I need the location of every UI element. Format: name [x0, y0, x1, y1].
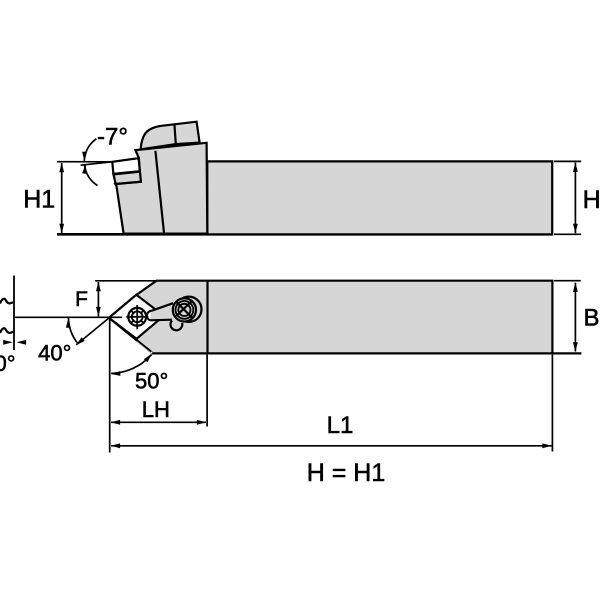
clamp arm (plan view) [151, 302, 186, 321]
clamp (side view) [141, 122, 200, 150]
clamp hook (plan view) [171, 321, 183, 331]
head internal edge (side view) [155, 151, 164, 233]
clamp divider line (side view) [174, 124, 175, 144]
dimension -7deg: lower arc [84, 164, 97, 185]
dimension H line [574, 163, 576, 234]
insert (plan view, square) [109, 295, 164, 339]
workpiece face line [13, 276, 15, 351]
svg-text:B: B [583, 305, 599, 332]
dimension L1 line [111, 445, 552, 447]
svg-text:-7°: -7° [97, 124, 128, 151]
dimension 0deg arrows [3, 340, 13, 345]
insert screw (plan view) [126, 305, 148, 329]
shim edge (plan view) [136, 339, 151, 351]
head body (side view) [115, 143, 207, 234]
svg-text:H: H [583, 186, 600, 214]
dimension 40deg arc [69, 317, 78, 343]
svg-text:0°: 0° [0, 351, 16, 376]
svg-text:40°: 40° [38, 341, 71, 366]
dimension F extension line [95, 280, 157, 282]
dimension LH line [111, 421, 206, 423]
insert (side view) [112, 158, 140, 174]
40deg cutting edge extension line [76, 317, 110, 345]
dimension B line [574, 283, 576, 352]
dimension -7deg: upper arc [84, 139, 96, 162]
shim (side view) [114, 172, 141, 184]
dimension -7deg: face line [81, 162, 113, 165]
dimension L1 extension line [551, 355, 553, 452]
dimension F line [97, 282, 99, 316]
reference line through tip (plan view) [14, 316, 122, 318]
svg-text:H1: H1 [23, 186, 55, 214]
clamp screw (plan view) [173, 297, 202, 322]
holder body (plan view) [109, 281, 553, 354]
dimension H1 line [61, 163, 63, 233]
workpiece symbol (plan view left) [0, 299, 13, 304]
dimension 50deg arc [111, 355, 151, 374]
dimension -7deg: reference line [57, 161, 112, 163]
dimension H extension lines [554, 160, 581, 162]
dimension LH extension line [206, 355, 208, 427]
dimension B extension lines [554, 280, 581, 282]
shank (side view) [207, 161, 552, 234]
svg-text:F: F [75, 288, 88, 311]
shim edge separator (plan view) [137, 341, 152, 353]
svg-text:LH: LH [142, 397, 170, 422]
svg-text:50°: 50° [135, 369, 168, 394]
head/shank boundary (plan view) [206, 281, 208, 354]
svg-text:H = H1: H = H1 [307, 459, 386, 487]
vertical extension line below tip [109, 317, 111, 452]
svg-text:L1: L1 [327, 412, 354, 439]
wire: ground line (side view bottom) [57, 233, 552, 236]
